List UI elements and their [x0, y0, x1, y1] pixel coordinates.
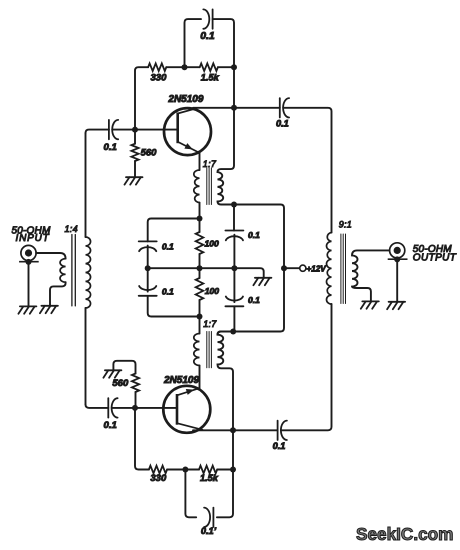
capacitor 0.1' (bottom feedback) — [212, 508, 214, 527]
wire - T1 primary bottom to ground — [50, 282, 66, 305]
transformer T4 secondary coil and connections — [352, 250, 390, 300]
svg-text:INPUT: INPUT — [16, 233, 50, 244]
transistor Q1 collector diagonal — [178, 108, 197, 113]
wire - T3 primary bottom to emitter — [199, 366, 201, 389]
wire - output connector to ground — [396, 259, 398, 301]
transistor Q2 2N5109 (bottom) - circle — [163, 386, 210, 433]
node - bottom secondary row / cap column — [230, 329, 236, 335]
ground - input connector — [20, 305, 37, 307]
transformer T4 core — [340, 234, 342, 304]
wire - bottom row right of 1.5k — [217, 469, 233, 471]
wire - input connector to ground — [28, 262, 30, 306]
resistor 330 (top) — [148, 63, 166, 71]
node - mid row center — [197, 265, 203, 271]
svg-text:1:4: 1:4 — [65, 224, 78, 234]
capacitor 0.1 (middle-right upper) — [233, 205, 235, 231]
wire - input connector to T1 primary — [36, 253, 66, 259]
wire - bottom row between 330 and 1.5k — [167, 469, 199, 471]
node - +12V tap on supply vertical — [281, 265, 287, 271]
svg-text:0.1: 0.1 — [248, 230, 260, 240]
node - mid row left — [145, 265, 151, 271]
ground - mid row center ground — [255, 277, 272, 279]
node - middle vertical / left column rejoin — [197, 314, 203, 320]
node - mid row right column — [231, 265, 237, 271]
wire - top cap loop right side down to collector node — [213, 19, 234, 108]
capacitor 0.1 (top output coupling) — [279, 98, 281, 117]
node - T2 secondary bottom / cap column (top) — [231, 202, 237, 208]
transformer T2 1:7 (top) primary coil — [194, 170, 200, 203]
svg-text:560: 560 — [141, 147, 158, 158]
transformer T1 core — [71, 235, 73, 306]
svg-text:100: 100 — [205, 238, 220, 248]
transistor Q1 emitter diagonal with arrow — [178, 142, 200, 153]
node - bottom base node — [132, 405, 138, 411]
svg-text:0.1: 0.1 — [162, 287, 174, 297]
terminal - 50-ohm output connector — [390, 243, 405, 258]
transistor Q2 base bar — [176, 394, 179, 425]
svg-text:2N5109: 2N5109 — [163, 375, 199, 386]
transistor Q2 emitter diagonal with arrow — [177, 388, 199, 395]
wire - bottom feedback left vertical — [135, 408, 149, 470]
wire - left column bottom corner to middle vertical — [148, 296, 200, 317]
svg-text:+12V: +12V — [307, 264, 327, 273]
svg-text:100: 100 — [205, 286, 220, 296]
node - junction 1.5k/feedback vertical (top) — [231, 64, 237, 70]
resistor 560 (top bias) — [134, 130, 136, 144]
ground - above bottom 560 — [105, 369, 122, 371]
node - output connector ground junction — [394, 256, 400, 262]
svg-text:560: 560 — [112, 378, 129, 389]
resistor 1.5k (top) — [200, 63, 218, 71]
node - junction 330/1.5k/cap (top) — [182, 64, 188, 70]
wire - top row right of 1.5k — [218, 66, 234, 68]
svg-text:OUTPUT: OUTPUT — [413, 252, 457, 263]
ground - T1 primary — [41, 305, 58, 307]
node - junction 1.5k/vertical (bottom) — [230, 467, 236, 473]
transformer T1 secondary coil on left vertical — [85, 133, 87, 237]
wire - 560 to ground (top) — [134, 161, 136, 177]
resistor 100 (lower) — [199, 268, 201, 278]
wire - connector shell bar — [19, 261, 39, 263]
wire - +12V lead — [284, 267, 300, 269]
transistor Q2 collector diagonal — [177, 423, 203, 430]
capacitor 0.1 (middle-right lower) — [225, 305, 243, 307]
svg-text:9:1: 9:1 — [339, 220, 352, 230]
ground - output connector — [389, 301, 406, 303]
capacitor 0.1 (bottom output coupling) — [277, 421, 279, 440]
wire - top collector wire to right — [193, 107, 280, 109]
resistor 330 (bottom) — [149, 466, 167, 474]
resistor 560 (bottom bias) — [132, 374, 139, 393]
wire - bottom collector to 9:1 primary bottom — [281, 304, 332, 430]
capacitor 0.1 (bottom input coupling) — [107, 398, 109, 417]
terminal - 50-ohm input connector — [21, 245, 36, 260]
transformer T4 9:1 primary coil on right vertical — [327, 233, 332, 305]
wire - left vertical bottom corner to cap — [86, 404, 109, 408]
transformer T3 secondary coil and connections — [217, 332, 233, 518]
svg-text:0.1: 0.1 — [200, 31, 215, 42]
wire - mid center row to ground corner — [148, 268, 264, 277]
capacitor 0.1 (top input coupling) — [108, 120, 110, 139]
node - junction 330/1.5k/cap (bottom) — [182, 467, 188, 473]
svg-text:1.5k: 1.5k — [201, 73, 220, 83]
svg-text:2N5109: 2N5109 — [167, 94, 203, 105]
wire - bottom base wire — [112, 407, 177, 409]
resistor 100 (upper) — [199, 219, 201, 233]
capacitor 0.1 (top feedback) — [212, 9, 214, 28]
node - top collector node — [231, 105, 237, 111]
transformer T3 1:7 (bottom) primary coil — [199, 317, 201, 334]
capacitor 0.1 (middle-left lower) — [139, 295, 157, 297]
capacitor 0.1 (middle-left upper) — [139, 240, 157, 242]
svg-text:0.1’: 0.1’ — [201, 526, 217, 536]
svg-text:1:7: 1:7 — [203, 159, 217, 169]
svg-text:0.1: 0.1 — [162, 242, 174, 252]
wire - T2 primary bottom down to node — [199, 203, 201, 219]
resistor 1.5k (bottom) — [199, 466, 217, 474]
wire - branch to left cap column (top) — [148, 219, 200, 242]
svg-text:0.1: 0.1 — [248, 295, 260, 305]
wire - emitter down to transformer T2 primary — [199, 153, 201, 170]
terminal +12V — [300, 265, 306, 271]
svg-text:0.1: 0.1 — [104, 420, 117, 431]
node - primary/cap-branch junction (top) — [197, 216, 203, 222]
wire - top cap loop left side — [185, 19, 202, 67]
wire - top feedback left vertical from base node to 330 row — [135, 67, 148, 129]
transformer T3 core — [206, 332, 208, 368]
wire - bottom cap loop left side — [185, 470, 196, 518]
transformer T2 core — [206, 168, 208, 205]
svg-text:0.1: 0.1 — [273, 441, 286, 451]
ground - below top 560 — [126, 176, 143, 178]
svg-text:330: 330 — [150, 473, 167, 484]
svg-text:0.1: 0.1 — [104, 142, 117, 153]
wire - output connector shell bar — [388, 258, 408, 260]
wire - base wire from cap to transistor (top) — [112, 129, 177, 131]
node - input connector ground junction — [26, 259, 32, 265]
transistor Q1 2N5109 (top) - circle — [164, 108, 211, 155]
svg-text:330: 330 — [151, 73, 168, 84]
wire - left vertical top corner to cap — [86, 130, 109, 134]
svg-text:SeekIC.com: SeekIC.com — [356, 524, 453, 544]
svg-text:0.1: 0.1 — [276, 118, 289, 128]
wire - top row between 330 and 1.5k — [166, 66, 199, 68]
transistor Q1 base bar — [176, 113, 179, 144]
transformer T2 secondary coil and connections — [218, 108, 285, 335]
node - top base node — [132, 127, 138, 133]
node - bottom collector node — [230, 427, 236, 433]
transformer T1 1:4 primary coil — [60, 259, 66, 283]
wire - top collector to 9:1 primary top — [283, 108, 331, 233]
ground - T4 secondary bottom — [362, 300, 379, 302]
wire - bottom collector wire — [193, 429, 278, 431]
svg-text:1:7: 1:7 — [203, 319, 217, 329]
wire - 560 top to ground hook (bottom) — [113, 361, 135, 374]
svg-text:1.5k: 1.5k — [200, 473, 219, 483]
